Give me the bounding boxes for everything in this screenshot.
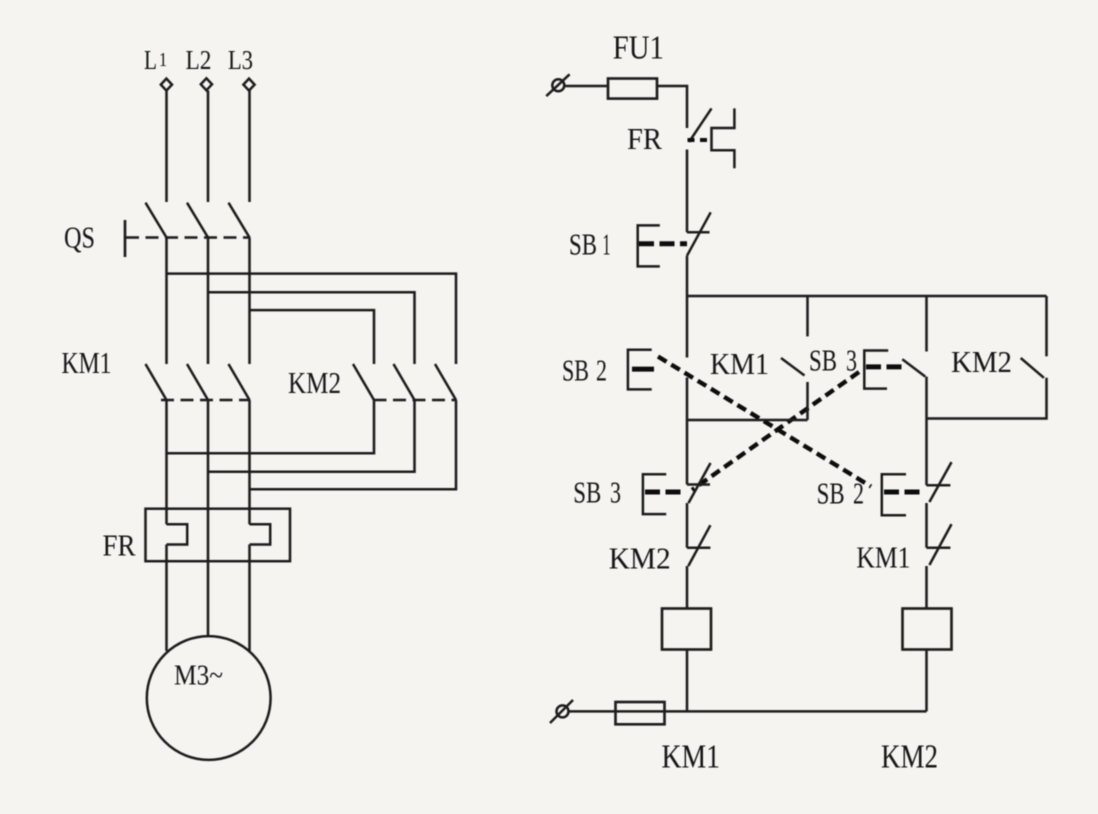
pushbutton SB3 operator dashed rod xyxy=(866,364,903,369)
svg-text:SB: SB xyxy=(573,475,601,510)
wire SB3NC to KM2NC xyxy=(686,503,689,548)
heater element phase1 wire lower xyxy=(165,545,168,562)
wire KM1 aux bottom xyxy=(806,382,809,420)
heater element phase3 bump xyxy=(250,524,271,544)
pushbutton SB1 operator bracket xyxy=(638,225,660,266)
thermal relay FR box xyxy=(146,509,291,562)
wire L1 below KM1 xyxy=(165,400,168,509)
wire L2 drop xyxy=(207,91,210,203)
pushbutton SB3 NC bar xyxy=(687,483,710,486)
FR NC linkage dashes xyxy=(688,138,711,142)
svg-text:1: 1 xyxy=(603,227,611,262)
wire L3 below KM1 xyxy=(248,400,251,509)
switch QS pole 3 blade xyxy=(229,203,250,238)
wire branch KM2aux drop xyxy=(1045,296,1048,356)
heater element phase1 wire upper xyxy=(165,509,168,525)
wire terminal to fuse xyxy=(565,85,609,88)
terminal bottom slash xyxy=(550,700,573,723)
wire KM1NC to coil KM2 xyxy=(925,566,928,609)
terminal bottom (connector) xyxy=(557,705,569,717)
wire fuse to corner xyxy=(657,86,687,128)
switch QS handle bar xyxy=(124,220,127,257)
wire SB2-KM1 join xyxy=(687,419,808,422)
pushbutton SB2 NC bar xyxy=(927,484,951,487)
pushbutton SB1 NC bar xyxy=(687,231,710,234)
heater element phase1 bump xyxy=(167,524,188,544)
wire L1 below QS xyxy=(165,238,168,365)
contactor KM1 pole 3 blade xyxy=(229,364,250,400)
coil KM2 xyxy=(903,609,952,650)
pushbutton SB2 operator bracket xyxy=(628,350,652,390)
switch QS linkage dashed xyxy=(126,236,250,239)
svg-text:KM2: KM2 xyxy=(951,344,1012,379)
wire KM2 pole2 bottom join xyxy=(208,400,415,472)
svg-text:3: 3 xyxy=(610,475,621,510)
wire bottom bus xyxy=(569,710,927,713)
pushbutton SB3 NO blade xyxy=(902,359,925,376)
wire KM2NC to coil KM1 xyxy=(686,566,689,609)
pushbutton SB3 operator bracket xyxy=(864,351,888,389)
svg-text:L3: L3 xyxy=(228,45,253,75)
wire KM2 pole3 bottom join xyxy=(250,400,457,489)
terminal L2 xyxy=(201,78,212,90)
svg-text:KM1: KM1 xyxy=(710,346,769,381)
svg-text:L2: L2 xyxy=(186,45,212,75)
fuse FU2 body xyxy=(616,702,665,724)
svg-text:SB: SB xyxy=(809,343,837,378)
wire top bus xyxy=(687,295,1047,298)
wire branch SB3 drop xyxy=(925,296,928,352)
pushbutton SB2 NC operator dashed rod xyxy=(884,490,925,495)
wire FR to SB1 xyxy=(686,150,689,233)
wire L1 drop xyxy=(165,91,168,203)
wire L2 below KM1 xyxy=(207,400,210,637)
wire crossover L2 to KM2 pole2 xyxy=(208,292,415,364)
svg-text:FU1: FU1 xyxy=(613,30,664,67)
terminal L1 xyxy=(161,79,172,91)
heater phase3 wire upper xyxy=(248,509,251,525)
FR NC thermal hook xyxy=(712,108,735,168)
contactor KM2 pole 2 blade xyxy=(394,364,415,400)
wire crossover L1 to KM2 pole3 xyxy=(167,274,457,364)
wire coil KM2 to bottom bus xyxy=(925,650,928,712)
fuse FU1 body xyxy=(608,79,657,99)
pushbutton SB1 NC blade xyxy=(687,212,711,255)
svg-text:SB: SB xyxy=(562,353,589,388)
wire KM2 aux bottom joins SB3 branch xyxy=(927,378,1047,419)
switch QS pole 2 blade xyxy=(187,203,208,238)
svg-text:FR: FR xyxy=(627,121,662,156)
contactor KM1 pole 2 blade xyxy=(187,364,208,400)
wire SB2NC to KM1NC xyxy=(925,503,928,548)
motor M3~ circle xyxy=(147,636,271,760)
pushbutton SB1 operator dashed rod xyxy=(639,241,687,246)
contact KM1 NC bar xyxy=(927,546,951,549)
contactor KM2 pole 3 blade xyxy=(435,364,456,400)
contactor KM1 linkage dashed xyxy=(161,399,250,402)
contact KM1 aux NO blade xyxy=(781,358,805,376)
svg-text:KM1: KM1 xyxy=(62,345,112,380)
svg-text:KM1: KM1 xyxy=(662,739,721,776)
svg-text:M3~: M3~ xyxy=(174,660,223,692)
svg-text:KM1: KM1 xyxy=(856,540,910,575)
svg-text:L: L xyxy=(144,45,157,75)
wire crossover L3 to KM2 pole1 xyxy=(250,310,375,364)
contact KM2 NC bar xyxy=(687,546,710,549)
wire L2 below QS xyxy=(207,238,210,365)
terminal L3 xyxy=(243,79,254,91)
mechanical linkage SB3 diagonal xyxy=(692,372,859,490)
wire SB2 top terminal xyxy=(686,296,689,358)
terminal top (connector) xyxy=(552,79,564,91)
wire to motor W xyxy=(248,561,251,651)
contactor KM2 pole 1 blade xyxy=(353,364,374,400)
pushbutton SB3 NC operator dashed rod xyxy=(645,490,685,495)
wire L3 below QS xyxy=(248,238,251,365)
wire left branch to SB3NC xyxy=(686,420,689,485)
wire coil KM1 to bottom bus xyxy=(686,650,689,712)
coil KM1 xyxy=(662,609,711,650)
svg-text:QS: QS xyxy=(64,220,95,255)
svg-text:2: 2 xyxy=(596,353,607,388)
wire right branch to SB2NC xyxy=(925,419,928,486)
pushbutton SB3 NC blade xyxy=(689,463,711,503)
switch QS pole 1 blade xyxy=(146,203,167,238)
heater phase3 wire lower xyxy=(248,545,251,562)
contactor KM2 linkage dashed xyxy=(374,399,457,402)
wire SB2 bottom terminal xyxy=(686,378,689,421)
pushbutton SB2 NC blade xyxy=(929,462,951,502)
wire SB1 to bus xyxy=(686,256,689,296)
svg-text:SB: SB xyxy=(569,227,597,262)
wire L3 drop xyxy=(248,91,251,203)
svg-text:2: 2 xyxy=(853,476,864,511)
contactor KM1 pole 1 blade xyxy=(146,364,167,400)
contact KM1 NC blade xyxy=(929,524,951,565)
svg-text:FR: FR xyxy=(103,528,136,563)
wire KM2 pole1 bottom join xyxy=(167,400,375,453)
contact KM2 aux NO blade xyxy=(1021,358,1044,378)
svg-text:KM2: KM2 xyxy=(881,739,938,776)
svg-text:SB: SB xyxy=(817,476,845,511)
FR NC contact blade xyxy=(689,108,712,142)
pushbutton SB2 operator dash xyxy=(632,367,654,372)
svg-text:KM2: KM2 xyxy=(609,541,671,576)
svg-text:KM2: KM2 xyxy=(288,365,341,400)
terminal top slash xyxy=(546,74,569,96)
svg-text:3: 3 xyxy=(846,343,857,378)
wire SB3 bottom terminal xyxy=(925,377,928,419)
contact KM2 NC blade xyxy=(688,525,710,566)
svg-text:1: 1 xyxy=(159,49,167,71)
wire to motor U xyxy=(165,561,168,651)
mechanical linkage SB2 diagonal xyxy=(658,357,871,487)
pushbutton SB3 NC operator bracket xyxy=(643,474,666,514)
pushbutton SB2 NC operator bracket xyxy=(882,474,906,515)
wire branch KM1aux drop xyxy=(806,296,809,336)
